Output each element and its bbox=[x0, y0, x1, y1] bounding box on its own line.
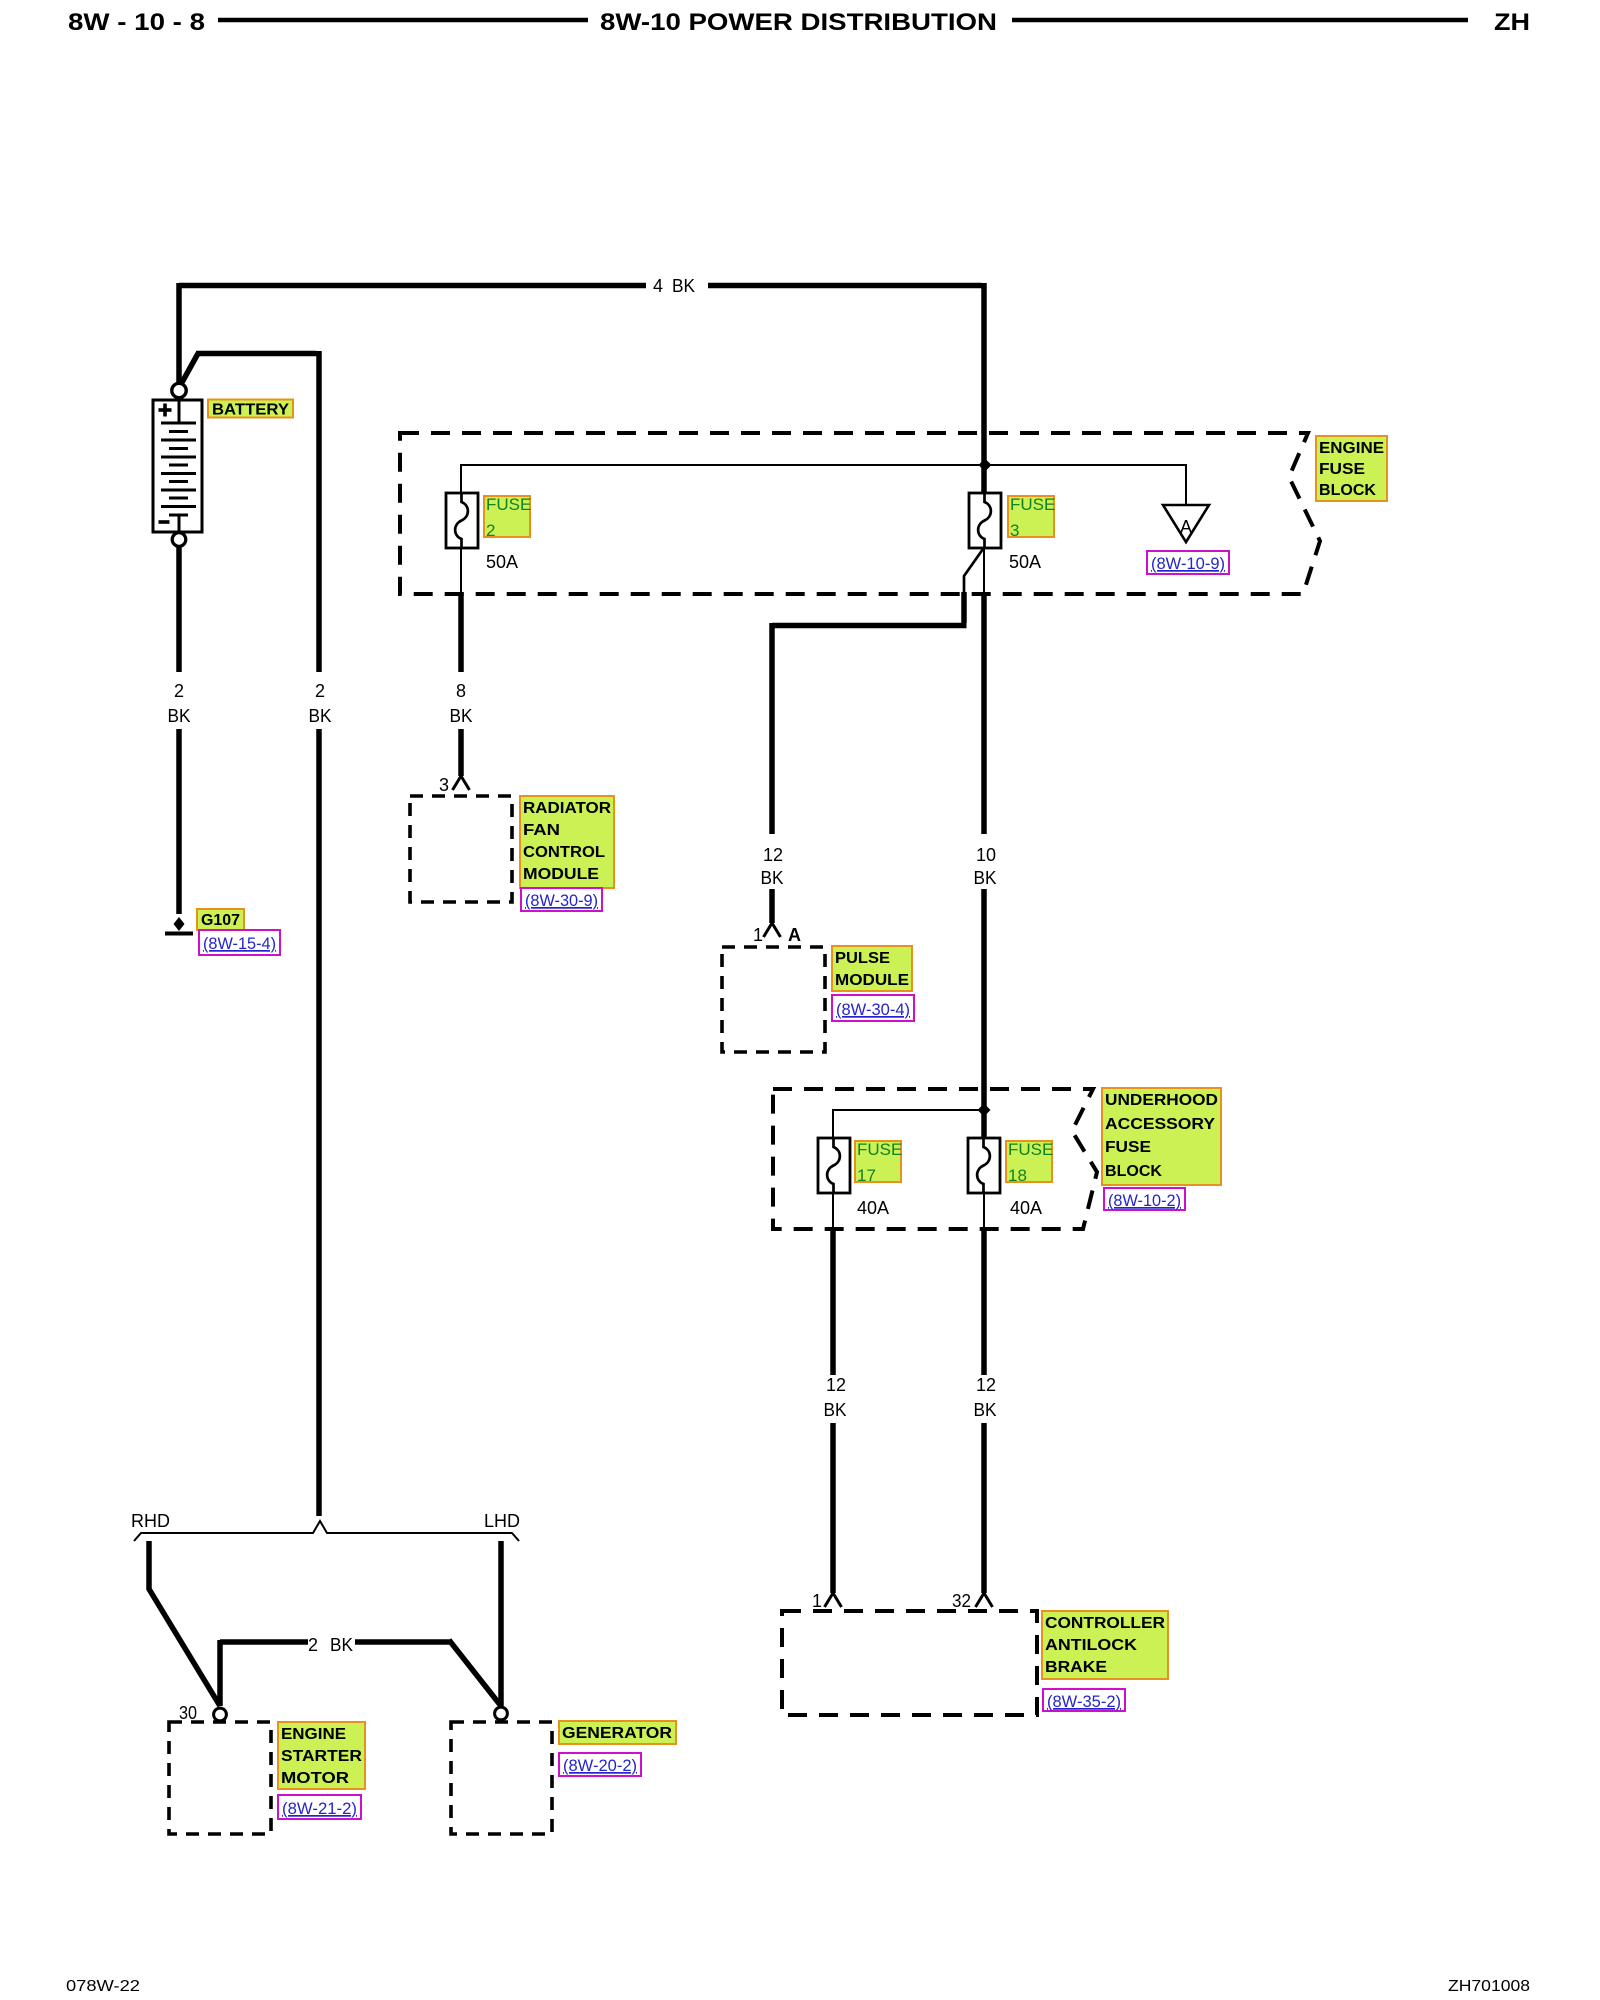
svg-text:(8W-21-2): (8W-21-2) bbox=[282, 1799, 357, 1818]
svg-text:FUSE: FUSE bbox=[1010, 495, 1055, 514]
svg-text:17: 17 bbox=[857, 1166, 876, 1185]
svg-text:LHD: LHD bbox=[484, 1511, 520, 1531]
svg-text:MOTOR: MOTOR bbox=[281, 1770, 350, 1787]
label FUSE 18 bbox=[1006, 1140, 1053, 1185]
svg-text:(8W-30-4): (8W-30-4) bbox=[836, 1000, 910, 1019]
wire: fuse 17 output bbox=[832, 1193, 834, 1229]
wire: pulse module feed bbox=[769, 889, 775, 923]
label 2 BK jumper bbox=[308, 1635, 353, 1655]
brace RHD/LHD bbox=[134, 1521, 519, 1541]
svg-text:(8W-15-4): (8W-15-4) bbox=[203, 934, 276, 953]
label ENGINE STARTER MOTOR bbox=[278, 1722, 365, 1789]
engine starter motor box bbox=[169, 1722, 271, 1834]
svg-text:BK: BK bbox=[974, 1400, 997, 1420]
connector fork radiator pin 3 bbox=[453, 776, 470, 790]
svg-text:18: 18 bbox=[1008, 1166, 1027, 1185]
header right rule bbox=[1012, 18, 1468, 23]
link 8W-30-9 bbox=[521, 888, 602, 911]
svg-text:50A: 50A bbox=[1009, 552, 1041, 572]
svg-text:1: 1 bbox=[753, 925, 763, 945]
battery positive terminal bbox=[172, 383, 186, 397]
header left page number bbox=[68, 9, 205, 36]
svg-text:FUSE: FUSE bbox=[486, 495, 531, 514]
label pin 1 pulse bbox=[753, 925, 763, 945]
svg-text:2: 2 bbox=[174, 681, 184, 701]
junction at underhood bus bbox=[978, 1104, 991, 1117]
svg-text:ACCESSORY: ACCESSORY bbox=[1105, 1116, 1215, 1133]
wire: underhood block feed bbox=[981, 889, 987, 1139]
svg-text:FUSE: FUSE bbox=[1105, 1139, 1151, 1156]
wire: battery negative drop bbox=[176, 546, 182, 672]
label 50A left bbox=[486, 552, 518, 572]
svg-text:ENGINE: ENGINE bbox=[281, 1726, 346, 1743]
label PULSE MODULE bbox=[832, 946, 912, 991]
link 8W-35-2 bbox=[1043, 1689, 1125, 1711]
wire: battery second feed diagonal and drop bbox=[180, 351, 319, 672]
svg-text:2: 2 bbox=[308, 1635, 318, 1655]
svg-text:1: 1 bbox=[812, 1591, 822, 1611]
wire: second feed continues down to brace bbox=[316, 729, 322, 1516]
svg-text:12: 12 bbox=[763, 845, 783, 865]
svg-text:10: 10 bbox=[976, 845, 996, 865]
svg-text:8: 8 bbox=[456, 681, 466, 701]
generator terminal circle bbox=[495, 1707, 508, 1720]
svg-text:BK: BK bbox=[450, 706, 473, 726]
header left rule bbox=[218, 18, 588, 23]
label connector A pulse bbox=[788, 925, 801, 945]
wire: radiator fan feed bbox=[458, 729, 464, 776]
svg-text:FUSE: FUSE bbox=[857, 1140, 902, 1159]
fuse F2 bbox=[446, 493, 478, 548]
svg-text:3: 3 bbox=[439, 775, 449, 795]
wire: RHD branch bbox=[149, 1541, 220, 1706]
svg-text:UNDERHOOD: UNDERHOOD bbox=[1105, 1092, 1218, 1109]
svg-text:8W-10 POWER DISTRIBUTION: 8W-10 POWER DISTRIBUTION bbox=[600, 9, 997, 36]
svg-text:MODULE: MODULE bbox=[835, 972, 909, 989]
underhood accessory fuse block dashed outline bbox=[773, 1089, 1097, 1229]
svg-text:BRAKE: BRAKE bbox=[1045, 1659, 1107, 1676]
svg-text:12: 12 bbox=[976, 1375, 996, 1395]
svg-text:FUSE: FUSE bbox=[1008, 1140, 1053, 1159]
label 40A left bbox=[857, 1198, 889, 1218]
svg-text:12: 12 bbox=[826, 1375, 846, 1395]
svg-text:(8W-10-2): (8W-10-2) bbox=[1108, 1191, 1181, 1210]
wire: LHD branch bbox=[498, 1541, 504, 1706]
svg-text:30: 30 bbox=[179, 1703, 197, 1723]
svg-text:40A: 40A bbox=[1010, 1198, 1042, 1218]
label G107 bbox=[197, 909, 244, 930]
engine fuse block dashed outline bbox=[400, 433, 1320, 594]
svg-text:BK: BK bbox=[168, 706, 191, 726]
svg-text:A: A bbox=[788, 925, 801, 945]
label 12 BK cab right bbox=[974, 1375, 997, 1420]
wire: cab feed left bbox=[830, 1423, 836, 1593]
label LHD bbox=[484, 1511, 520, 1531]
svg-text:(8W-30-9): (8W-30-9) bbox=[525, 891, 598, 910]
link 8W-21-2 bbox=[278, 1795, 361, 1819]
label pin 32 bbox=[952, 1591, 971, 1611]
link 8W-15-4 bbox=[199, 930, 280, 955]
controller antilock brake box bbox=[782, 1611, 1037, 1715]
wire: fuse F3 output left branch bbox=[964, 549, 983, 594]
svg-text:CONTROL: CONTROL bbox=[523, 844, 605, 861]
svg-text:GENERATOR: GENERATOR bbox=[562, 1725, 672, 1742]
off-page arrow A bbox=[1163, 505, 1209, 542]
wire: fuse F3 output right branch bbox=[983, 548, 985, 594]
label 4 BK bbox=[653, 276, 695, 296]
label FUSE 17 bbox=[855, 1140, 902, 1185]
svg-text:BK: BK bbox=[672, 276, 695, 296]
svg-text:078W-22: 078W-22 bbox=[66, 1978, 140, 1995]
label RADIATOR FAN CONTROL MODULE bbox=[520, 796, 614, 888]
label FUSE 3 bbox=[1008, 495, 1055, 540]
wire: starter jumper 2 BK bbox=[220, 1640, 501, 1706]
connector fork pulse pin 1 bbox=[764, 923, 781, 937]
svg-text:ENGINE: ENGINE bbox=[1319, 440, 1384, 457]
svg-text:BK: BK bbox=[824, 1400, 847, 1420]
wire: thin fuse feed bus bbox=[461, 465, 1186, 505]
svg-text:STARTER: STARTER bbox=[281, 1748, 362, 1765]
svg-text:FUSE: FUSE bbox=[1319, 461, 1365, 478]
pulse module box bbox=[722, 947, 825, 1052]
generator box bbox=[451, 1722, 552, 1834]
wire: fuse 18 output bbox=[983, 1193, 985, 1229]
label 40A right bbox=[1010, 1198, 1042, 1218]
label 12 BK cab left bbox=[824, 1375, 847, 1420]
fuse F18 bbox=[968, 1138, 1000, 1193]
link 8W-20-2 bbox=[559, 1753, 641, 1776]
svg-text:(8W-10-9): (8W-10-9) bbox=[1151, 554, 1225, 573]
svg-text:CONTROLLER: CONTROLLER bbox=[1045, 1615, 1165, 1632]
svg-text:BLOCK: BLOCK bbox=[1105, 1163, 1162, 1180]
label 10 BK bbox=[974, 845, 997, 888]
svg-text:BK: BK bbox=[761, 868, 784, 888]
svg-text:RADIATOR: RADIATOR bbox=[523, 800, 611, 817]
battery B1 bbox=[153, 400, 202, 532]
svg-text:2: 2 bbox=[315, 681, 325, 701]
label 8 BK bbox=[450, 681, 473, 726]
label 2 BK left bbox=[168, 681, 191, 726]
svg-text:3: 3 bbox=[1010, 521, 1019, 540]
label GENERATOR bbox=[559, 1721, 676, 1744]
ground G107 symbol bbox=[165, 917, 193, 934]
header vehicle code bbox=[1494, 9, 1530, 36]
fuse F3 bbox=[969, 493, 1001, 548]
svg-text:BK: BK bbox=[309, 706, 332, 726]
label BATTERY bbox=[208, 400, 293, 419]
wire: top horizontal feed right segment bbox=[708, 283, 984, 494]
svg-text:(8W-20-2): (8W-20-2) bbox=[563, 1756, 637, 1775]
connector fork cab pin 1 bbox=[825, 1593, 842, 1607]
svg-text:4: 4 bbox=[653, 276, 663, 296]
wire: fuse F2 output bbox=[460, 548, 462, 594]
label UNDERHOOD ACCESSORY FUSE BLOCK bbox=[1102, 1088, 1221, 1185]
svg-text:FAN: FAN bbox=[523, 822, 560, 839]
label 50A right bbox=[1009, 552, 1041, 572]
svg-text:ZH701008: ZH701008 bbox=[1448, 1978, 1530, 1995]
svg-text:BK: BK bbox=[330, 1635, 353, 1655]
link 8W-10-2 bbox=[1104, 1188, 1185, 1210]
label FUSE 2 bbox=[484, 495, 531, 540]
svg-text:8W - 10 - 8: 8W - 10 - 8 bbox=[68, 9, 205, 36]
wire: thin feed to fuse 17 bbox=[833, 1110, 984, 1139]
wire: ground drop bbox=[176, 729, 182, 914]
label RHD bbox=[131, 1511, 170, 1531]
junction at bus and main feed bbox=[979, 459, 992, 472]
svg-text:50A: 50A bbox=[486, 552, 518, 572]
svg-text:BK: BK bbox=[974, 868, 997, 888]
svg-text:40A: 40A bbox=[857, 1198, 889, 1218]
label CONTROLLER ANTILOCK BRAKE bbox=[1042, 1611, 1168, 1679]
label terminal 30 bbox=[179, 1703, 197, 1723]
wire: top horizontal feed left segment bbox=[179, 283, 646, 289]
svg-text:MODULE: MODULE bbox=[523, 866, 599, 883]
svg-text:G107: G107 bbox=[201, 912, 240, 929]
label 2 BK second bbox=[309, 681, 332, 726]
header title bbox=[600, 9, 997, 36]
wire: cab feed right bbox=[981, 1423, 987, 1593]
svg-text:PULSE: PULSE bbox=[835, 950, 890, 967]
svg-text:2: 2 bbox=[486, 521, 495, 540]
wire: battery positive riser bbox=[176, 283, 182, 383]
label 12 BK pulse bbox=[761, 845, 784, 888]
svg-text:32: 32 bbox=[952, 1591, 971, 1611]
link 8W-10-9 bbox=[1147, 551, 1229, 574]
footer right code bbox=[1448, 1978, 1530, 1995]
battery negative terminal bbox=[172, 533, 186, 547]
svg-text:BLOCK: BLOCK bbox=[1319, 482, 1376, 499]
label ENGINE FUSE BLOCK bbox=[1316, 436, 1387, 501]
radiator fan control module box bbox=[410, 796, 512, 902]
svg-text:RHD: RHD bbox=[131, 1511, 170, 1531]
svg-text:ZH: ZH bbox=[1494, 9, 1530, 36]
link 8W-30-4 bbox=[832, 995, 914, 1021]
svg-text:A: A bbox=[1180, 517, 1192, 537]
fuse F17 bbox=[818, 1138, 850, 1193]
footer left code bbox=[66, 1978, 140, 1995]
svg-text:ANTILOCK: ANTILOCK bbox=[1045, 1637, 1137, 1654]
label pin 3 bbox=[439, 775, 449, 795]
label pin 1 cab bbox=[812, 1591, 822, 1611]
connector fork cab pin 32 bbox=[976, 1593, 993, 1607]
svg-text:BATTERY: BATTERY bbox=[212, 402, 289, 419]
svg-text:(8W-35-2): (8W-35-2) bbox=[1047, 1692, 1121, 1711]
starter terminal circle bbox=[214, 1708, 227, 1721]
